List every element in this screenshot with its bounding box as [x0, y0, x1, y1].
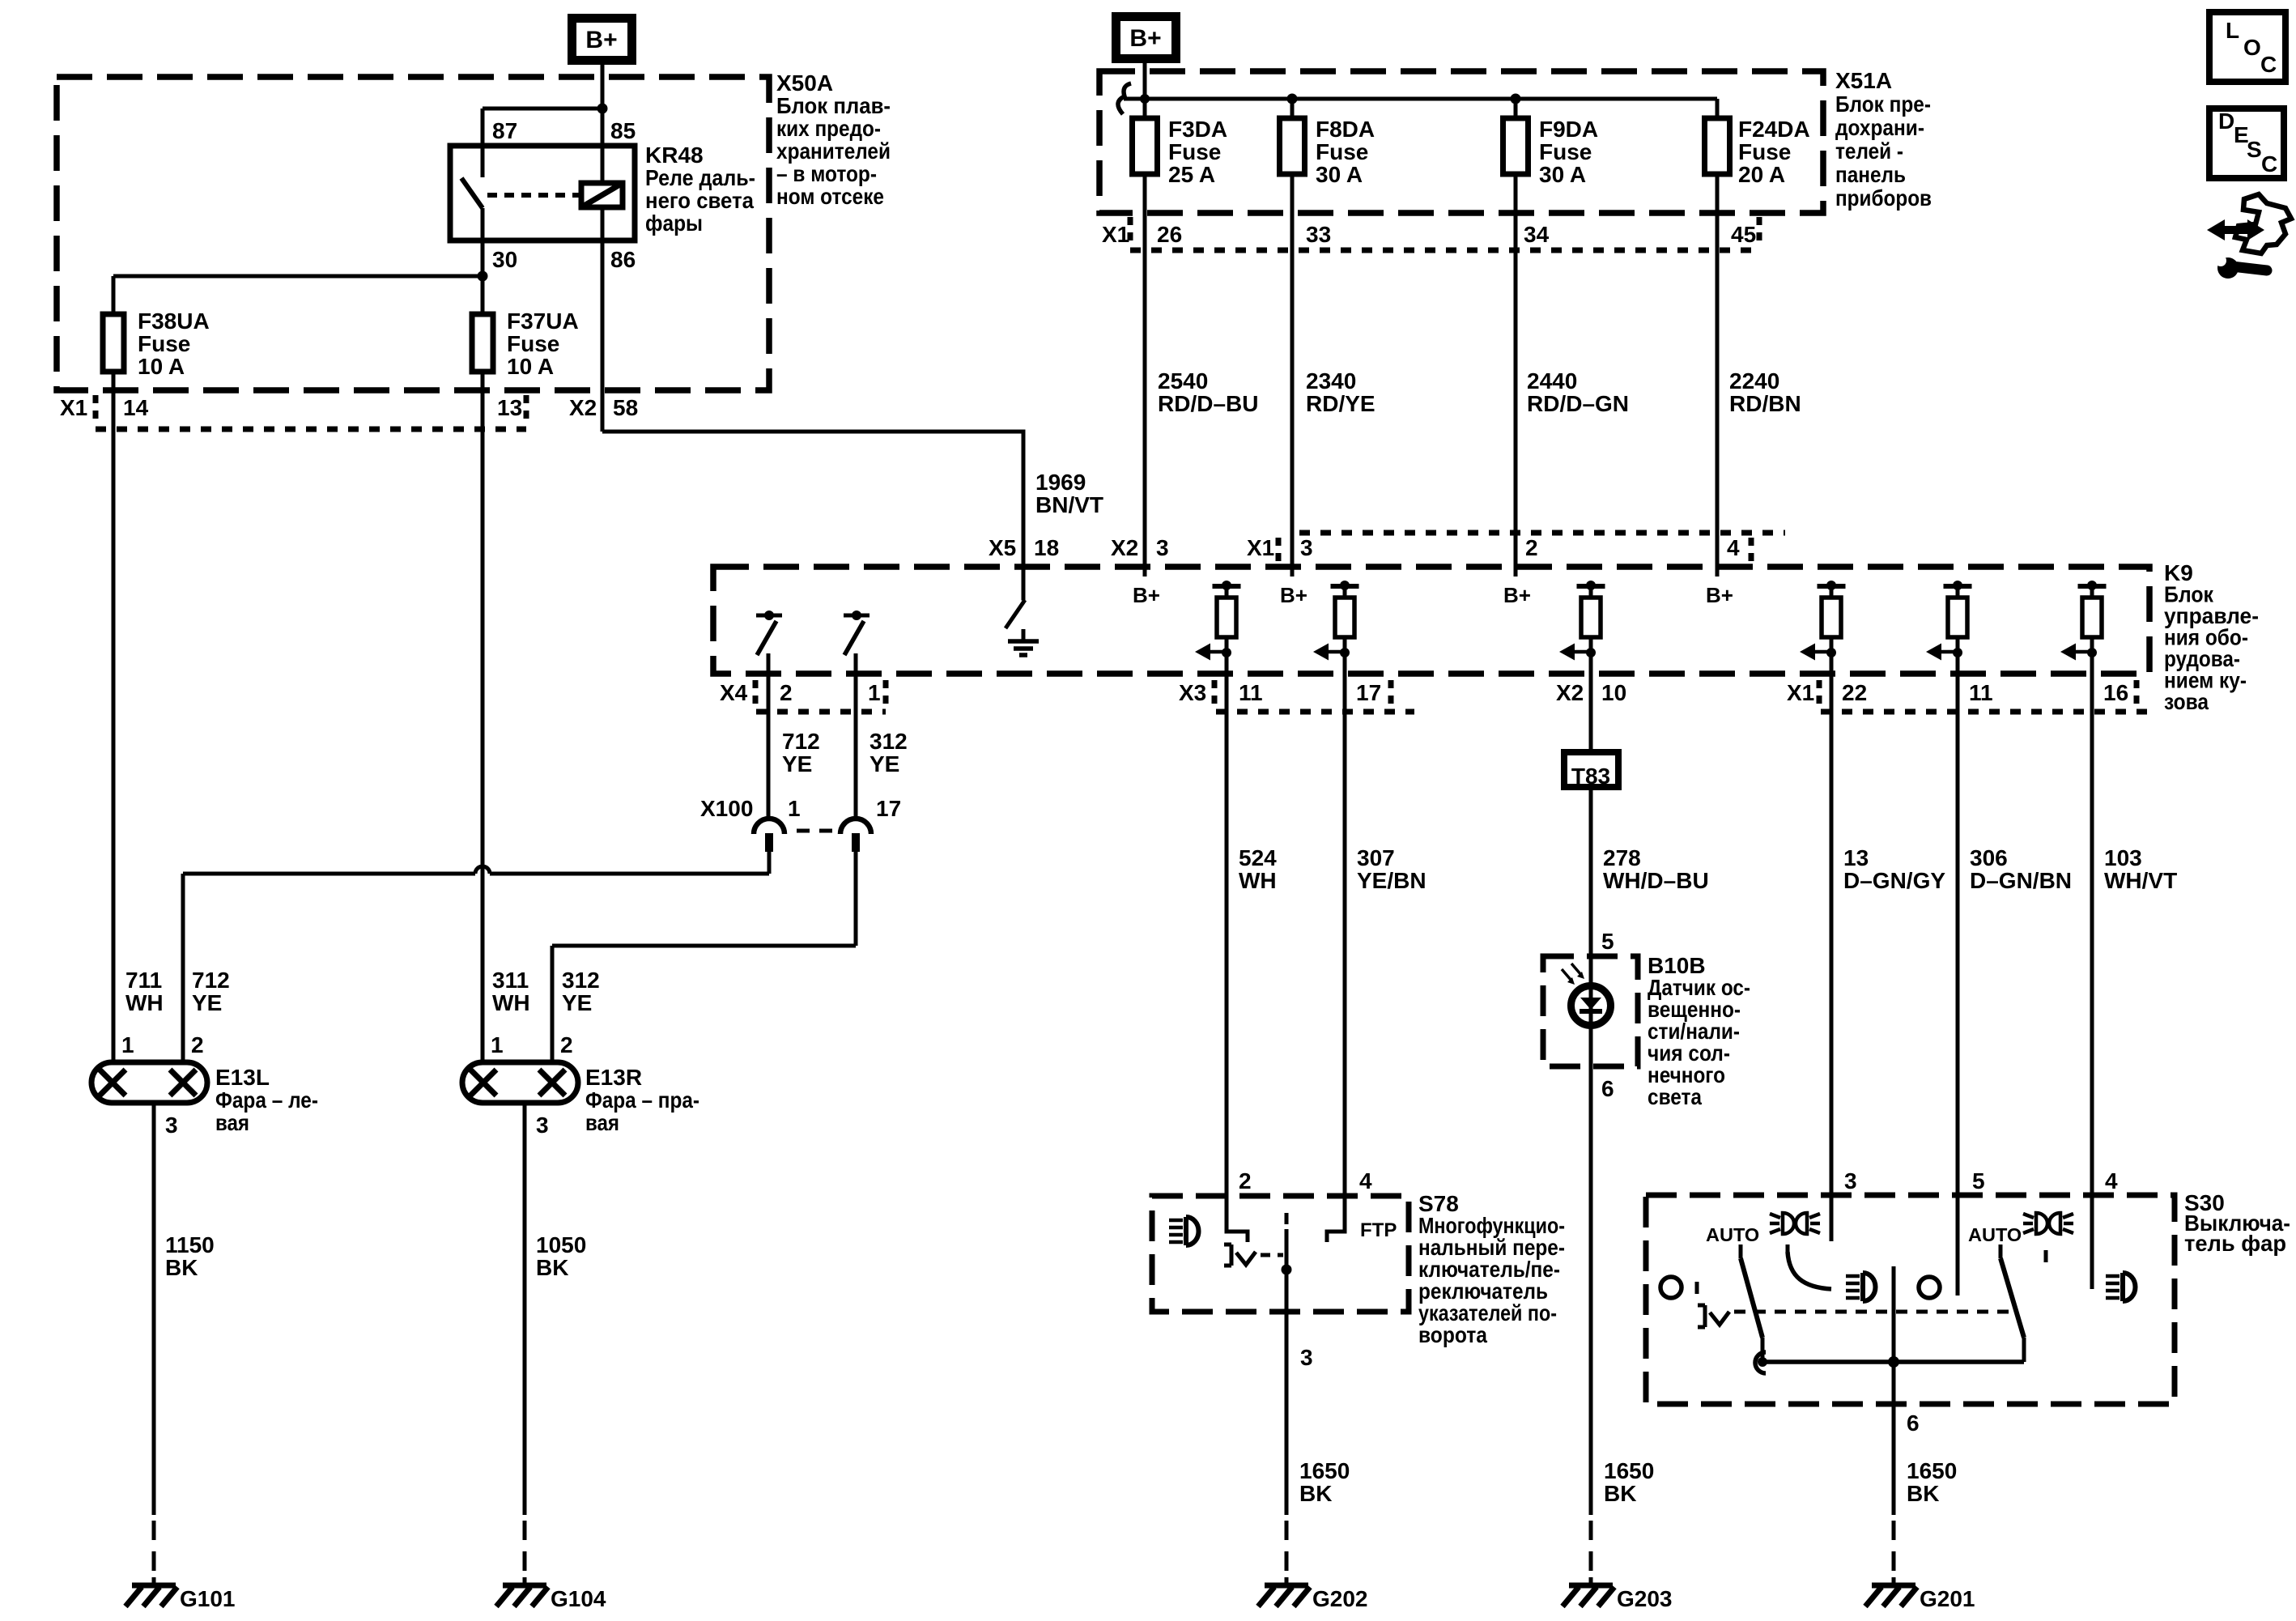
svg-text:3: 3: [536, 1113, 549, 1138]
wire 1650 BK B10B pin6 to G203: [1589, 1066, 1593, 1581]
svg-text:2240: 2240: [1729, 368, 1779, 394]
label wire 2240: [1729, 368, 1801, 416]
label G203: [1617, 1586, 1673, 1611]
svg-text:Блок плав-: Блок плав-: [776, 93, 891, 118]
headlamp icon right in S30: [2106, 1273, 2136, 1301]
svg-text:Реле даль-: Реле даль-: [645, 165, 755, 190]
fuse panel X51A dashed enclosure: [1099, 71, 1823, 213]
svg-text:18: 18: [1034, 535, 1059, 560]
wire 307 YE/BN K9 pin17 to S78 pin4: [1343, 654, 1347, 1232]
light rays into B10B sensor: [1562, 964, 1584, 985]
svg-text:712: 712: [192, 968, 230, 993]
legend DESC box: [2209, 108, 2284, 178]
label wire 103 WH/VT: [2104, 845, 2177, 893]
svg-text:14: 14: [123, 395, 149, 420]
svg-text:хранителей: хранителей: [776, 138, 891, 164]
svg-text:5: 5: [1601, 929, 1614, 954]
svg-text:X51A: X51A: [1835, 68, 1892, 93]
svg-text:307: 307: [1357, 845, 1395, 870]
svg-text:711: 711: [125, 968, 162, 993]
svg-text:X4: X4: [720, 680, 748, 705]
resistor to B+ with arrow inside K9 (103 output): [2060, 581, 2107, 661]
label wire 312 YE upper: [870, 729, 908, 776]
relay KR48 coil: [581, 183, 623, 207]
wire 2540 RD/D-BU fuse F3DA to K9 X2-3: [1143, 174, 1147, 576]
connector X100 dashed link: [797, 829, 838, 833]
svg-text:BK: BK: [1604, 1481, 1636, 1506]
S30 arc contact to pin3: [1788, 1244, 1831, 1289]
svg-text:16: 16: [2103, 680, 2128, 705]
svg-text:RD/YE: RD/YE: [1306, 391, 1375, 416]
svg-text:ких предо-: ких предо-: [776, 116, 881, 141]
sensor B10B pin5 label: [1601, 929, 1614, 954]
connector X3 dotted outline: [1214, 680, 1414, 712]
svg-text:13: 13: [1843, 845, 1869, 870]
svg-text:Фара – ле-: Фара – ле-: [215, 1087, 318, 1113]
switch S30 pin labels top: [1844, 1168, 2118, 1193]
svg-text:него света: него света: [645, 188, 754, 213]
label wire 711 WH: [125, 968, 164, 1015]
connector X100 pin1 halves: [754, 819, 784, 852]
label K9 module: [2164, 560, 2259, 714]
switch to ground inside K9 (X5-18): [1006, 600, 1039, 655]
connector X1 right pin labels: [1787, 680, 2128, 705]
svg-text:X2: X2: [1556, 680, 1584, 705]
label E13R: [585, 1065, 699, 1135]
resistor to B+ with arrow inside K9 (306 output): [1926, 581, 1972, 661]
relay KR48 pin labels: [492, 118, 636, 272]
photodiode in B10B: [1571, 986, 1611, 1026]
svg-text:4: 4: [1359, 1168, 1372, 1193]
ground G203: [1563, 1577, 1614, 1606]
svg-text:G202: G202: [1312, 1586, 1368, 1611]
S30 dashed linkage: [1734, 1310, 2009, 1314]
svg-text:X2: X2: [1111, 535, 1138, 560]
svg-text:AUTO: AUTO: [1706, 1224, 1759, 1245]
S30 position marker dash right: [2044, 1250, 2048, 1262]
connector X4 pin labels: [720, 680, 881, 705]
node junction dot pin30: [478, 271, 488, 282]
svg-text:T83: T83: [1571, 764, 1610, 789]
switch S78 dashed enclosure: [1152, 1196, 1409, 1312]
fuse F37UA: [472, 314, 493, 372]
svg-text:F9DA: F9DA: [1539, 117, 1598, 142]
svg-text:BK: BK: [1299, 1481, 1332, 1506]
headlamp E13R pin3 label: [536, 1113, 549, 1138]
wire to relay pin 87: [483, 108, 602, 177]
headlamp icon left in S30: [1846, 1273, 1876, 1301]
label wire 1969 BN/VT: [1035, 470, 1103, 517]
svg-text:13: 13: [497, 395, 522, 420]
svg-text:Фара – пра-: Фара – пра-: [585, 1087, 699, 1113]
label AUTO right in S30: [1968, 1224, 2022, 1245]
svg-text:1650: 1650: [1907, 1458, 1957, 1483]
svg-text:ворота: ворота: [1418, 1322, 1487, 1347]
headlamp flash icon in S78: [1169, 1217, 1199, 1245]
label wire 712 YE upper: [782, 729, 820, 776]
connector X1 pin labels under X50A: [60, 395, 638, 420]
legend wrench icon: [2215, 255, 2267, 279]
switch S30 dashed enclosure: [1646, 1195, 2175, 1404]
relay KR48 actuation dashed link: [487, 193, 580, 198]
svg-text:33: 33: [1306, 222, 1331, 247]
svg-text:телей -: телей -: [1835, 138, 1903, 164]
label X51A fuse panel: [1835, 68, 1932, 211]
S30 common wire to pin6: [1892, 1266, 1896, 1404]
connector X4 dotted outline: [755, 680, 886, 712]
headlamp E13L pin3 label: [165, 1113, 178, 1138]
wire pin30 to fuse F38UA: [113, 276, 483, 314]
svg-text:Fuse: Fuse: [1539, 139, 1592, 164]
svg-text:103: 103: [2104, 845, 2142, 870]
fuse F3DA: [1133, 118, 1158, 174]
svg-text:вая: вая: [585, 1110, 619, 1135]
svg-text:WH: WH: [125, 990, 164, 1015]
svg-text:WH/D–BU: WH/D–BU: [1603, 868, 1709, 893]
svg-text:6: 6: [1601, 1076, 1614, 1101]
svg-text:BK: BK: [1907, 1481, 1939, 1506]
svg-text:G201: G201: [1920, 1586, 1975, 1611]
svg-text:YE: YE: [782, 751, 812, 776]
svg-text:приборов: приборов: [1835, 185, 1932, 211]
svg-text:дохрани-: дохрани-: [1835, 115, 1924, 140]
svg-text:306: 306: [1970, 845, 2008, 870]
fuse F24DA: [1705, 118, 1730, 174]
S30 off position circle left: [1660, 1277, 1697, 1298]
connector X1 dotted outline under X51A: [1130, 217, 1759, 250]
label wire 307 YE/BN: [1357, 845, 1426, 893]
svg-text:1650: 1650: [1604, 1458, 1654, 1483]
S30 common rail: [1755, 1352, 2024, 1373]
wire 1650 BK S30 pin6 to G201: [1892, 1404, 1896, 1581]
connector X1 dotted outline under X50A: [96, 395, 526, 429]
svg-text:YE: YE: [870, 751, 899, 776]
label F37UA: [507, 308, 579, 379]
svg-text:524: 524: [1239, 845, 1277, 870]
svg-text:Fuse: Fuse: [507, 331, 559, 356]
fuse F38UA: [103, 314, 124, 372]
connector pin labels entering K9 top: [989, 535, 1740, 560]
svg-text:X2: X2: [569, 395, 597, 420]
svg-text:1650: 1650: [1299, 1458, 1350, 1483]
svg-text:C: C: [2260, 52, 2277, 77]
svg-text:B+: B+: [585, 27, 617, 53]
svg-text:B+: B+: [1503, 583, 1531, 607]
svg-text:B+: B+: [1706, 583, 1733, 607]
label wire 2340: [1306, 368, 1375, 416]
svg-text:34: 34: [1524, 222, 1550, 247]
fuse block X50A dashed enclosure: [57, 77, 769, 390]
svg-text:11: 11: [1969, 680, 1993, 705]
label wire 712 YE lower: [192, 968, 230, 1015]
label wire 1650 BK (G202): [1299, 1458, 1350, 1506]
svg-text:зова: зова: [2164, 689, 2209, 714]
label wire 1050 BK: [536, 1232, 586, 1280]
label F3DA: [1168, 117, 1227, 187]
node junction dot bus F9DA: [1511, 94, 1521, 104]
auto lamp icon left in S30: [1770, 1213, 1820, 1234]
label G101: [180, 1586, 236, 1611]
inline connector T83: [1564, 752, 1618, 789]
svg-text:G203: G203: [1617, 1586, 1673, 1611]
bus wire across fuses: [1124, 99, 1717, 118]
wire relay pin86 to K9 X5-18 (1969 BN/VT): [602, 207, 1023, 600]
svg-text:RD/BN: RD/BN: [1729, 391, 1801, 416]
label F8DA: [1316, 117, 1375, 187]
wire K9 X2-10 to T83: [1589, 654, 1593, 752]
wire 1050 BK E13R pin3 to G104: [523, 1103, 527, 1581]
svg-text:фары: фары: [645, 211, 703, 236]
svg-text:20 A: 20 A: [1738, 162, 1785, 187]
svg-text:X100: X100: [700, 796, 753, 821]
label S78 switch: [1418, 1191, 1565, 1347]
legend swap arrow icon: [2207, 219, 2264, 240]
S30 rotary blade left: [1741, 1244, 1762, 1362]
auto lamp icon right in S30: [2023, 1213, 2073, 1234]
label wire 13 D-GN/GY: [1843, 845, 1945, 893]
wire 312 YE X100 to E13R pin2: [552, 852, 856, 1062]
connector X100 pin17 halves: [840, 819, 871, 852]
label wire 278 WH/D-BU: [1603, 845, 1709, 893]
connector X2 pin labels (T83): [1556, 680, 1626, 705]
wire 1650 BK S78 pin3 to G202: [1285, 1312, 1289, 1581]
svg-text:тель фар: тель фар: [2184, 1231, 2286, 1256]
resistor to B+ with arrow inside K9 (524 output): [1195, 581, 1241, 661]
svg-text:30 A: 30 A: [1316, 162, 1363, 187]
svg-text:2: 2: [1239, 1168, 1252, 1193]
svg-text:4: 4: [1727, 535, 1740, 560]
wire 306 D-GN/BN K9 pin11 to S30 pin5: [1956, 654, 1960, 1296]
headlamp E13L: [91, 1062, 207, 1103]
label wire 524 WH: [1239, 845, 1277, 893]
svg-text:Fuse: Fuse: [138, 331, 190, 356]
svg-text:1: 1: [788, 796, 801, 821]
label G202: [1312, 1586, 1368, 1611]
svg-text:2440: 2440: [1527, 368, 1577, 394]
label KR48 relay: [645, 143, 755, 236]
svg-text:10: 10: [1601, 680, 1626, 705]
svg-text:L: L: [2226, 18, 2239, 43]
svg-text:10 A: 10 A: [507, 354, 554, 379]
wire 2340 RD/YE fuse F8DA to K9 X1-3: [1290, 174, 1295, 576]
label G201: [1920, 1586, 1975, 1611]
resistor to B+ with arrow inside K9 (278 output): [1559, 581, 1605, 661]
svg-text:58: 58: [613, 395, 638, 420]
svg-text:D–GN/BN: D–GN/BN: [1970, 868, 2072, 893]
svg-text:30 A: 30 A: [1539, 162, 1586, 187]
svg-text:Fuse: Fuse: [1168, 139, 1221, 164]
ground G201: [1865, 1577, 1917, 1606]
svg-text:1969: 1969: [1035, 470, 1086, 495]
svg-text:712: 712: [782, 729, 820, 754]
wire B+ feed down to relay KR48 coil pin 85: [601, 65, 605, 183]
sensor B10B dashed enclosure: [1543, 956, 1638, 1066]
legend LOC box: [2209, 12, 2285, 82]
wire 278 WH/D-BU T83 to B10B pin5: [1589, 787, 1593, 1066]
svg-text:45: 45: [1731, 222, 1756, 247]
svg-text:S: S: [2247, 137, 2262, 162]
connector X1 dotted outline above K9: [1278, 533, 1785, 564]
label S30 switch: [2184, 1190, 2290, 1256]
svg-text:Блок пре-: Блок пре-: [1835, 91, 1931, 117]
svg-text:30: 30: [492, 247, 517, 272]
wire 711 WH fuse F38UA to E13L pin1: [112, 372, 116, 1062]
label wire 2540: [1158, 368, 1258, 416]
svg-text:B+: B+: [1280, 583, 1307, 607]
S78 switch dashed link: [1261, 1253, 1283, 1257]
headlamp E13L pin labels: [121, 1032, 204, 1057]
svg-text:B+: B+: [1133, 583, 1160, 607]
S78 pin2 contact hook: [1227, 1196, 1248, 1242]
module K9 dashed enclosure: [713, 567, 2149, 674]
svg-text:6: 6: [1907, 1410, 1920, 1436]
svg-text:4: 4: [2105, 1168, 2118, 1193]
svg-text:BN/VT: BN/VT: [1035, 492, 1103, 517]
S78 pin3 label: [1300, 1345, 1313, 1370]
power symbol B+ (battery feed, left): [572, 19, 632, 61]
svg-text:BK: BK: [536, 1255, 568, 1280]
svg-text:вая: вая: [215, 1110, 249, 1135]
svg-text:YE: YE: [192, 990, 222, 1015]
svg-text:312: 312: [562, 968, 600, 993]
switch inside K9 for X4-2: [756, 611, 782, 816]
wire 2240 RD/BN fuse F24DA to K9 pin4: [1716, 174, 1720, 576]
svg-text:3: 3: [1844, 1168, 1857, 1193]
power symbol B+ (battery feed, center): [1116, 17, 1176, 59]
svg-text:1: 1: [491, 1032, 504, 1057]
svg-text:BK: BK: [165, 1255, 198, 1280]
svg-text:D: D: [2218, 108, 2234, 134]
svg-text:F24DA: F24DA: [1738, 117, 1810, 142]
connector X1 right dotted outline: [1819, 680, 2149, 712]
legend hand icon: [2235, 194, 2291, 253]
svg-text:X3: X3: [1179, 680, 1206, 705]
svg-text:E13L: E13L: [215, 1065, 270, 1090]
node junction dot bus F8DA: [1287, 94, 1298, 104]
svg-text:312: 312: [870, 729, 908, 754]
svg-text:86: 86: [610, 247, 636, 272]
svg-text:ном отсеке: ном отсеке: [776, 184, 884, 209]
label G104: [551, 1586, 606, 1611]
headlamp E13R: [462, 1062, 578, 1103]
switch inside K9 for X4-1: [844, 611, 870, 816]
connector X3 pin labels: [1179, 680, 1381, 705]
ground G101: [125, 1577, 177, 1606]
label FTP in S78: [1360, 1219, 1397, 1241]
svg-text:D–GN/GY: D–GN/GY: [1843, 868, 1945, 893]
svg-text:2: 2: [1525, 535, 1538, 560]
svg-text:2: 2: [780, 680, 793, 705]
label B10B sensor: [1648, 953, 1750, 1109]
switch S78 pin labels top: [1239, 1168, 1372, 1193]
svg-text:1: 1: [121, 1032, 134, 1057]
svg-text:WH: WH: [1239, 868, 1277, 893]
wire 524 WH K9 X3-11 to S78 pin2: [1225, 654, 1229, 1232]
S30 pin6 label: [1907, 1410, 1920, 1436]
svg-text:X1: X1: [1102, 222, 1129, 247]
svg-text:3: 3: [1300, 535, 1313, 560]
B+ internal labels in K9: [1133, 583, 1733, 607]
fuse F9DA: [1503, 118, 1529, 174]
svg-text:3: 3: [1156, 535, 1169, 560]
svg-text:2: 2: [560, 1032, 573, 1057]
headlamp E13R pin labels: [491, 1032, 573, 1057]
wire 13 D-GN/GY K9 X1-22 to S30 pin3: [1830, 654, 1834, 1241]
wire relay pin30 down: [481, 208, 485, 314]
label E13L: [215, 1065, 318, 1135]
label F24DA: [1738, 117, 1810, 187]
svg-text:X1: X1: [60, 395, 87, 420]
svg-text:G104: G104: [551, 1586, 606, 1611]
svg-text:C: C: [2261, 151, 2277, 177]
wire 712 YE X100 to E13L pin2: [183, 852, 769, 1062]
node junction dot bus F3DA: [1140, 94, 1150, 104]
svg-text:11: 11: [1239, 680, 1263, 705]
wire 311 WH fuse F37UA to E13R pin1: [481, 372, 485, 1062]
svg-text:10 A: 10 A: [138, 354, 185, 379]
S30 detent bracket: [1698, 1305, 1729, 1327]
svg-text:WH: WH: [492, 990, 530, 1015]
node junction dot pin85 feed: [597, 104, 608, 114]
svg-text:X5: X5: [989, 535, 1016, 560]
label wire 311 WH: [492, 968, 530, 1015]
svg-text:1150: 1150: [165, 1232, 215, 1257]
bus feed hook symbol: [1118, 83, 1131, 114]
label wire 1150 BK: [165, 1232, 215, 1280]
label F38UA: [138, 308, 210, 379]
svg-text:F38UA: F38UA: [138, 308, 210, 334]
S30 rotary blade right: [2000, 1244, 2024, 1362]
resistor to B+ with arrow inside K9 (13 output): [1800, 581, 1846, 661]
S78 common contact wire: [1282, 1213, 1292, 1312]
svg-text:22: 22: [1842, 680, 1867, 705]
svg-text:1: 1: [868, 680, 881, 705]
svg-text:YE/BN: YE/BN: [1357, 868, 1426, 893]
svg-text:F37UA: F37UA: [507, 308, 579, 334]
svg-text:17: 17: [876, 796, 901, 821]
wire 103 WH/VT K9 pin16 to S30 pin4: [2090, 654, 2094, 1289]
svg-text:G101: G101: [180, 1586, 236, 1611]
svg-text:17: 17: [1356, 680, 1381, 705]
ground G104: [496, 1577, 548, 1606]
svg-text:5: 5: [1972, 1168, 1985, 1193]
svg-text:2: 2: [191, 1032, 204, 1057]
label AUTO left in S30: [1706, 1224, 1759, 1245]
svg-text:F3DA: F3DA: [1168, 117, 1227, 142]
svg-text:311: 311: [492, 968, 529, 993]
label wire 2440: [1527, 368, 1629, 416]
fuse F8DA: [1280, 118, 1305, 174]
svg-text:AUTO: AUTO: [1968, 1224, 2022, 1245]
svg-text:RD/D–BU: RD/D–BU: [1158, 391, 1258, 416]
svg-text:25 A: 25 A: [1168, 162, 1215, 187]
S78 pin4 contact hook: [1327, 1196, 1345, 1242]
label X50A fuse block: [776, 70, 891, 209]
connector X1 pin labels under X51A: [1102, 222, 1756, 247]
resistor to B+ with arrow inside K9 (307 output): [1313, 581, 1359, 661]
S78 switch detent bracket: [1224, 1244, 1256, 1266]
connector X100 pin1 label: [788, 796, 801, 821]
connector X100 label: [700, 796, 753, 821]
svg-text:Fuse: Fuse: [1316, 139, 1368, 164]
svg-text:панель: панель: [1835, 162, 1906, 187]
svg-text:1050: 1050: [536, 1232, 586, 1257]
svg-text:3: 3: [165, 1113, 178, 1138]
svg-text:3: 3: [1300, 1345, 1313, 1370]
label wire 1650 BK (G203): [1604, 1458, 1654, 1506]
ground G202: [1258, 1577, 1310, 1606]
svg-text:RD/D–GN: RD/D–GN: [1527, 391, 1629, 416]
